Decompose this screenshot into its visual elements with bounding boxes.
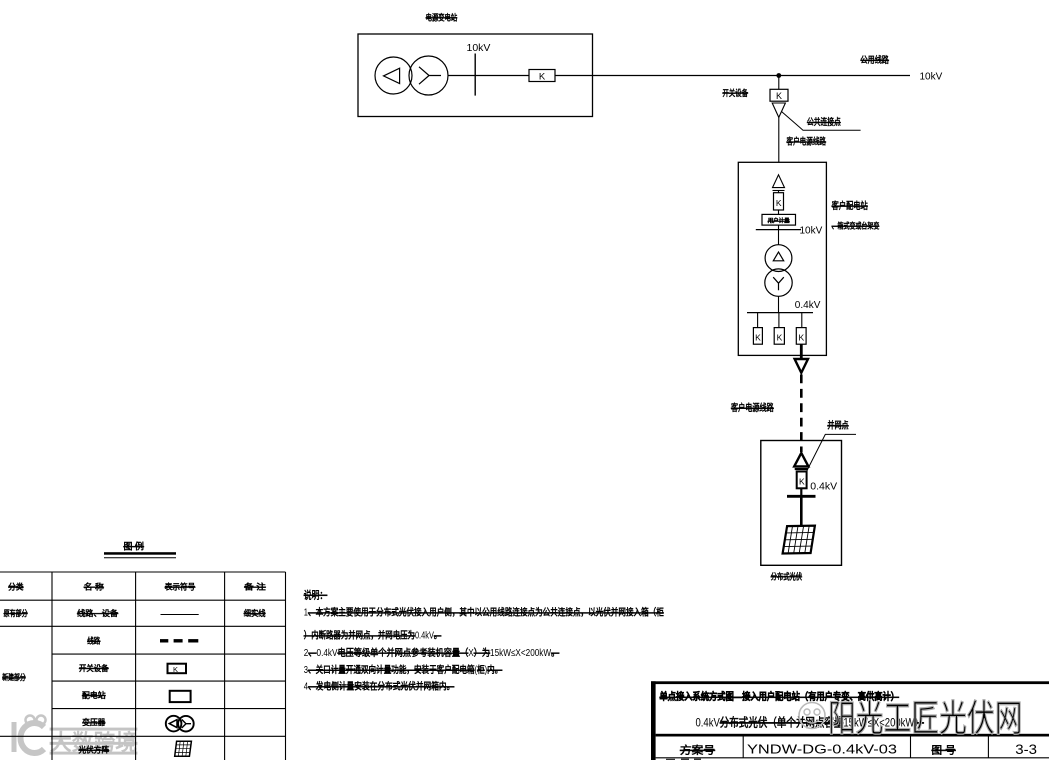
legend symbol: switch box K	[168, 664, 187, 674]
legend symbol: new thick dashed line	[160, 639, 198, 642]
svg-text:客户配电站: 客户配电站	[832, 200, 869, 212]
cable terminal arrow down (thick)	[795, 359, 808, 373]
PV array panel	[783, 526, 815, 554]
wire: metering box to HV busbar	[778, 225, 780, 245]
wire: thick dashed customer supply line	[800, 375, 803, 453]
svg-text:K: K	[776, 91, 782, 101]
customer metering box	[762, 214, 796, 225]
svg-text:公用线路: 公用线路	[861, 54, 889, 65]
common connection point triangle marker	[772, 103, 785, 117]
wire: main 10kV public line	[448, 75, 910, 77]
wire: feeder drop 2	[778, 313, 780, 328]
legend table grid	[0, 572, 286, 760]
wire: K3 to metering box	[778, 210, 780, 214]
svg-text:K: K	[173, 665, 178, 674]
svg-text:）内断路器为并网点，并网电压为0.4kV。: ）内断路器为并网点，并网电压为0.4kV。	[304, 629, 442, 642]
svg-text:光伏方阵: 光伏方阵	[79, 745, 110, 755]
svg-text:表示符号: 表示符号	[165, 582, 196, 592]
svg-text:0.4kV: 0.4kV	[795, 300, 821, 311]
svg-text:细实线: 细实线	[244, 608, 266, 618]
legend title thin underline	[104, 557, 176, 559]
legend symbol: distribution station box	[170, 691, 191, 702]
customer substation box	[738, 162, 826, 355]
transformer T1 upper winding with delta	[765, 245, 792, 272]
feeder breaker K6	[796, 328, 806, 345]
svg-text:分布式光伏: 分布式光伏	[771, 571, 803, 582]
svg-text:变压器: 变压器	[82, 717, 105, 727]
svg-text:客户电源线路: 客户电源线路	[731, 402, 774, 414]
cable terminal arrow up (thick) in PV box	[794, 453, 808, 469]
generator-transformer G1 circle right with wye	[409, 56, 448, 95]
breaker K3	[774, 193, 784, 210]
source substation box	[358, 34, 593, 117]
svg-text:图 例: 图 例	[123, 540, 144, 551]
svg-text:配电站: 配电站	[82, 690, 106, 700]
breaker K1 on public line	[529, 70, 555, 83]
watermark logo bottom-left	[14, 716, 46, 754]
partial next row marks at sheet bottom edge	[666, 759, 701, 760]
legend title thick underline	[104, 552, 176, 555]
svg-text:方案号: 方案号	[680, 743, 715, 756]
wire: feeder drop 1	[757, 313, 759, 328]
LV busbar 0.4kV	[747, 312, 813, 314]
svg-text:K: K	[755, 332, 761, 342]
svg-text:电源变电站: 电源变电站	[426, 12, 458, 23]
leader line to common connection point label	[782, 112, 861, 131]
svg-text:K: K	[798, 332, 804, 342]
generator-transformer G1 circle left with delta	[375, 57, 412, 94]
svg-text:阳光工匠光伏网: 阳光工匠光伏网	[828, 698, 1023, 739]
svg-text:新建部分: 新建部分	[2, 672, 25, 682]
svg-text:0.4kV: 0.4kV	[810, 480, 837, 492]
feeder breaker K4	[753, 328, 762, 345]
wire: triangle to customer substation	[778, 117, 780, 162]
wire: K7 to PV bar	[800, 488, 802, 496]
svg-text:用户计量: 用户计量	[768, 217, 790, 225]
busbar 10kV in source substation	[474, 54, 476, 96]
wire: junction to switch K2	[778, 76, 780, 90]
svg-text:分类: 分类	[8, 582, 23, 592]
svg-text:10kV: 10kV	[920, 72, 943, 83]
wire: thick lead from K6 out of substation	[800, 344, 803, 359]
leader line to grid connection point label	[807, 434, 857, 471]
wire: transformer to LV busbar	[778, 296, 780, 312]
title block middle thick rule	[656, 734, 1049, 737]
legend symbol: transformer two circles	[166, 716, 194, 732]
wire: feeder drop 3	[801, 313, 803, 328]
svg-text:名 称: 名 称	[84, 582, 104, 592]
PV station box	[761, 441, 842, 566]
svg-text:、箱式变或台架变: 、箱式变或台架变	[832, 221, 880, 231]
svg-text:公共连接点: 公共连接点	[807, 116, 841, 127]
PV breaker K7 (thick)	[797, 472, 807, 489]
wire: bar to PV array	[800, 496, 803, 526]
node: junction on public line	[776, 73, 781, 78]
svg-text:1、本方案主要使用于分布式光伏接入用户侧，其中以公用线路连接: 1、本方案主要使用于分布式光伏接入用户侧，其中以公用线路连接点为公共连接点，以光…	[304, 606, 664, 619]
svg-text:YNDW-DG-0.4kV-03: YNDW-DG-0.4kV-03	[747, 742, 897, 757]
legend symbol: existing solid line	[161, 614, 199, 616]
switch K2	[770, 89, 788, 101]
svg-text:图 号: 图 号	[932, 744, 956, 756]
svg-text:3-3: 3-3	[1015, 741, 1037, 757]
svg-text:K: K	[799, 476, 805, 486]
title block top thick border	[651, 681, 1049, 684]
wire: arrow to breaker K3	[778, 191, 780, 193]
svg-text:客户电源线路: 客户电源线路	[787, 136, 827, 147]
watermark logo title block	[799, 703, 825, 729]
transformer T1 lower winding with wye	[765, 269, 792, 296]
svg-text:开关设备: 开关设备	[723, 87, 749, 98]
svg-text:3、关口计量开通双向计量功能，安装于客户配电箱(柜)内。: 3、关口计量开通双向计量功能，安装于客户配电箱(柜)内。	[304, 663, 503, 676]
svg-text:并网点: 并网点	[827, 420, 848, 432]
svg-text:线路、设备: 线路、设备	[77, 608, 118, 618]
svg-text:说明：: 说明：	[304, 588, 328, 601]
svg-text:线路: 线路	[87, 636, 100, 646]
svg-text:K: K	[777, 332, 783, 342]
svg-text:2、0.4kV电压等级单个并网点参考装机容量（X）为15kW: 2、0.4kV电压等级单个并网点参考装机容量（X）为15kW≤X<200kW。	[304, 646, 560, 659]
HV busbar 10kV in customer substation	[756, 229, 801, 231]
svg-text:K: K	[539, 71, 546, 82]
feeder breaker K5	[774, 328, 784, 345]
svg-text:K: K	[776, 198, 782, 208]
svg-text:开关设备: 开关设备	[79, 663, 109, 673]
svg-text:4、发电侧计量安装在分布式光伏并网箱内。: 4、发电侧计量安装在分布式光伏并网箱内。	[304, 680, 455, 693]
PV busbar (thick bar)	[787, 495, 816, 498]
cable head arrow in customer substation	[773, 175, 785, 191]
svg-text:原有部分: 原有部分	[4, 608, 28, 618]
legend symbol: PV array grid	[175, 741, 192, 756]
title block cell dividers	[656, 737, 1049, 758]
title block left thick border	[651, 681, 656, 760]
svg-text:10kV: 10kV	[467, 42, 491, 54]
svg-text:10kV: 10kV	[800, 226, 823, 237]
svg-text:备 注: 备 注	[244, 582, 266, 592]
